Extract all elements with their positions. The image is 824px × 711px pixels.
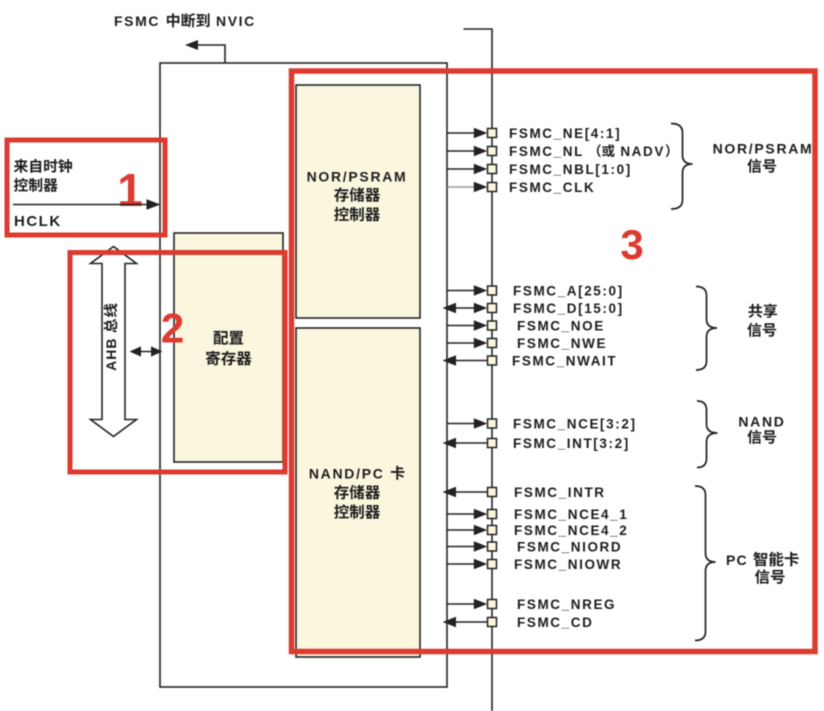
label: PC smart card signals: [726, 552, 799, 584]
svg-text:FSMC_CLK: FSMC_CLK: [509, 180, 595, 195]
red callout box 2: [70, 253, 285, 473]
svg-text:FSMC_NOE: FSMC_NOE: [517, 318, 605, 333]
brace: PC smart-card signal group: [695, 486, 716, 641]
signal FSMC_NIOWR: [447, 557, 622, 572]
red callout box 3: [292, 71, 816, 652]
svg-text:NAND/PC: NAND/PC: [309, 466, 390, 482]
svg-text:FSMC_D[15:0]: FSMC_D[15:0]: [513, 301, 624, 316]
label: NOR/PSRAM memory controller: [307, 169, 408, 222]
signal FSMC_INTR: [443, 485, 606, 500]
svg-text:FSMC_A[25:0]: FSMC_A[25:0]: [513, 283, 624, 298]
svg-text:FSMC_INT[3:2]: FSMC_INT[3:2]: [513, 436, 630, 451]
svg-text:NAND: NAND: [738, 414, 785, 430]
brace: NOR/PSRAM signal group: [671, 124, 693, 210]
brace: shared signal group: [696, 287, 717, 371]
signal FSMC_A[25:0]: [447, 283, 624, 298]
svg-text:FSMC_NWAIT: FSMC_NWAIT: [512, 353, 617, 368]
svg-text:FSMC_INTR: FSMC_INTR: [514, 485, 606, 500]
svg-text:FSMC_NL: FSMC_NL: [509, 144, 584, 159]
signal FSMC_NBL[1:0]: [447, 162, 632, 177]
label: NOR/PSRAM signals: [713, 141, 814, 173]
svg-text:2: 2: [161, 305, 184, 352]
svg-text:FSMC: FSMC: [114, 13, 166, 29]
FSMC block outer box: [160, 63, 447, 687]
svg-text:FSMC_NCE4_2: FSMC_NCE4_2: [514, 523, 628, 538]
svg-text:PC: PC: [726, 552, 753, 568]
signal bus vertical line with top stub: [464, 29, 493, 711]
AHB bus hollow double arrow: [91, 247, 137, 437]
label: NAND/PC-card memory controller: [309, 466, 405, 519]
config register box: [174, 233, 283, 462]
signal FSMC_CD: [443, 615, 594, 630]
svg-text:FSMC_NE[4:1]: FSMC_NE[4:1]: [509, 126, 621, 141]
red callout box 1: [7, 140, 165, 235]
signal FSMC_NIORD: [447, 539, 622, 554]
signal FSMC_NWE: [447, 336, 607, 351]
svg-text:FSMC_NWE: FSMC_NWE: [517, 336, 607, 351]
HCLK arrow into FSMC block: [13, 199, 161, 210]
signal FSMC_CLK: [447, 180, 595, 195]
svg-text:NVIC: NVIC: [211, 13, 256, 29]
label: from clock controller: [14, 159, 72, 192]
svg-text:NADV: NADV: [615, 144, 665, 159]
svg-text:AHB: AHB: [103, 338, 119, 371]
svg-text:3: 3: [620, 221, 643, 268]
svg-text:FSMC_NIORD: FSMC_NIORD: [517, 539, 622, 554]
brace: NAND signal group: [697, 401, 718, 468]
signal FSMC_D[15:0]: [443, 301, 624, 316]
label: AHB bus (vertical): [103, 303, 119, 370]
signal FSMC_NWAIT: [443, 353, 618, 368]
signal FSMC_INT[3:2]: [443, 436, 630, 451]
svg-text:NOR/PSRAM: NOR/PSRAM: [713, 141, 814, 157]
label: shared signals: [747, 304, 777, 337]
signal FSMC_NL (NADV): [447, 144, 670, 159]
label: config register: [206, 331, 251, 366]
NAND/PC-card controller box: [296, 328, 420, 657]
svg-text:FSMC_NCE4_1: FSMC_NCE4_1: [514, 507, 628, 522]
svg-text:FSMC_NIOWR: FSMC_NIOWR: [514, 557, 622, 572]
NOR/PSRAM controller box: [296, 85, 420, 318]
FSMC interrupt to NVIC arrow: [185, 40, 225, 63]
svg-text:NOR/PSRAM: NOR/PSRAM: [307, 169, 408, 185]
label: NAND signals: [738, 414, 785, 444]
signal FSMC_NOE: [447, 318, 605, 333]
signal FSMC_NCE4_1: [447, 507, 628, 522]
signal FSMC_NREG: [447, 597, 616, 612]
signal FSMC_NCE[3:2]: [447, 416, 637, 431]
svg-text:FSMC_NCE[3:2]: FSMC_NCE[3:2]: [513, 416, 637, 431]
signal FSMC_NCE4_2: [447, 523, 628, 538]
svg-text:FSMC_NREG: FSMC_NREG: [517, 597, 616, 612]
label: FSMC interrupt to NVIC: [114, 13, 256, 29]
signal FSMC_NE[4:1]: [447, 126, 621, 141]
svg-text:FSMC_CD: FSMC_CD: [517, 615, 593, 630]
svg-text:1: 1: [117, 164, 143, 216]
svg-text:FSMC_NBL[1:0]: FSMC_NBL[1:0]: [509, 162, 632, 177]
AHB to config register double arrow: [130, 346, 163, 356]
svg-text:HCLK: HCLK: [14, 213, 62, 230]
